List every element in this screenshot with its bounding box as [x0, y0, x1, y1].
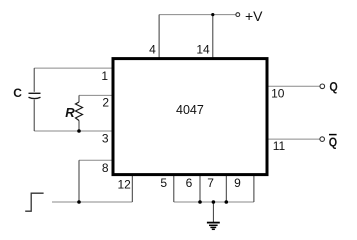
svg-text:9: 9 [234, 176, 241, 190]
svg-text:14: 14 [196, 43, 210, 57]
svg-text:11: 11 [273, 139, 286, 153]
svg-text:6: 6 [186, 176, 193, 190]
svg-text:4047: 4047 [176, 103, 204, 117]
svg-text:2: 2 [102, 95, 109, 109]
svg-text:R: R [65, 105, 75, 120]
svg-text:7: 7 [207, 176, 214, 190]
svg-text:8: 8 [102, 161, 109, 175]
svg-text:3: 3 [102, 132, 109, 146]
svg-text:Q: Q [329, 79, 337, 94]
svg-text:4: 4 [149, 43, 156, 57]
svg-text:+V: +V [245, 8, 263, 24]
svg-text:12: 12 [118, 178, 132, 192]
svg-text:10: 10 [271, 86, 285, 100]
svg-text:Q: Q [329, 134, 337, 149]
svg-text:5: 5 [160, 176, 167, 190]
svg-text:1: 1 [101, 69, 108, 83]
svg-text:C: C [13, 86, 22, 100]
